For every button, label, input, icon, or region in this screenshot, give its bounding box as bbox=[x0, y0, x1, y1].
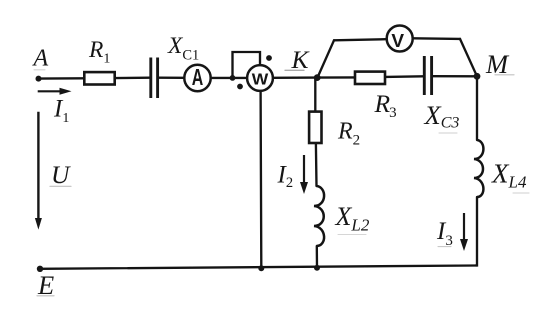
svg-text:XL4: XL4 bbox=[491, 159, 527, 192]
wire diagonal to voltmeter bbox=[334, 39, 386, 40]
wire C3 to node M bbox=[433, 75, 477, 77]
ammeter A1 bbox=[184, 64, 210, 91]
resistor R3 bbox=[355, 72, 397, 121]
inductor L2 (X_L2) bbox=[314, 186, 370, 246]
wire wattmeter voltage-coil loop bbox=[233, 52, 261, 78]
wire diagonal down to M bbox=[460, 39, 477, 76]
resistor R1 bbox=[84, 37, 114, 85]
svg-text:A: A bbox=[32, 46, 49, 72]
wattmeter W bbox=[237, 55, 273, 91]
svg-text:XL2: XL2 bbox=[335, 202, 370, 235]
junction dot wattmeter tap bbox=[230, 75, 236, 81]
node M bbox=[474, 49, 510, 80]
svg-text:R3: R3 bbox=[374, 89, 397, 121]
junction dot bottom below W bbox=[258, 265, 264, 271]
wire C1 to ammeter bbox=[159, 77, 184, 79]
svg-text:R1: R1 bbox=[88, 37, 110, 67]
current arrow I1 bbox=[38, 88, 72, 126]
svg-text:XC3: XC3 bbox=[424, 100, 460, 132]
current arrow I3 bbox=[436, 213, 468, 251]
inductor L4 (X_L4) bbox=[474, 140, 527, 197]
wire A to R1 bbox=[39, 77, 84, 80]
node K bbox=[291, 45, 321, 81]
svg-text:I1: I1 bbox=[53, 96, 69, 127]
wire R1 to C1 bbox=[115, 77, 150, 80]
wire L2 to bottom bbox=[316, 246, 319, 268]
svg-text:V: V bbox=[391, 30, 404, 51]
wire K to R3 bbox=[317, 76, 355, 79]
faint scan underline marks bbox=[34, 70, 529, 296]
voltage arrow U bbox=[35, 112, 71, 230]
wire wattmeter down to bottom bbox=[259, 91, 262, 268]
svg-text:W: W bbox=[252, 72, 269, 89]
wire voltmeter to diagonal bbox=[414, 37, 461, 40]
wire K down to R2 bbox=[314, 78, 316, 111]
voltmeter V bbox=[387, 26, 413, 52]
svg-text:A: A bbox=[192, 64, 204, 90]
wire R3 to C3 bbox=[386, 75, 424, 78]
current arrow I2 bbox=[277, 155, 309, 194]
wire R2 to L2 bbox=[315, 144, 318, 186]
wire wattmeter to node K bbox=[273, 76, 317, 79]
wire ammeter to wattmeter bbox=[211, 77, 247, 79]
junction dot bottom below L2 bbox=[314, 265, 320, 271]
capacitor C3 (X_C3) bbox=[424, 56, 460, 132]
wire L4 to bottom corner bbox=[476, 197, 477, 265]
svg-text:R2: R2 bbox=[337, 119, 360, 149]
svg-text:XC1: XC1 bbox=[167, 33, 199, 64]
wire bottom E to corner bbox=[40, 266, 477, 269]
svg-text:I2: I2 bbox=[277, 162, 294, 192]
resistor R2 bbox=[309, 112, 360, 149]
wire M down to L4 bbox=[476, 76, 478, 140]
node E bbox=[37, 266, 54, 300]
wire K up diagonal bbox=[318, 40, 335, 77]
node A bbox=[32, 46, 49, 82]
svg-text:I3: I3 bbox=[436, 218, 453, 249]
svg-text:U: U bbox=[51, 160, 71, 189]
capacitor C1 (X_C1) bbox=[151, 33, 199, 98]
